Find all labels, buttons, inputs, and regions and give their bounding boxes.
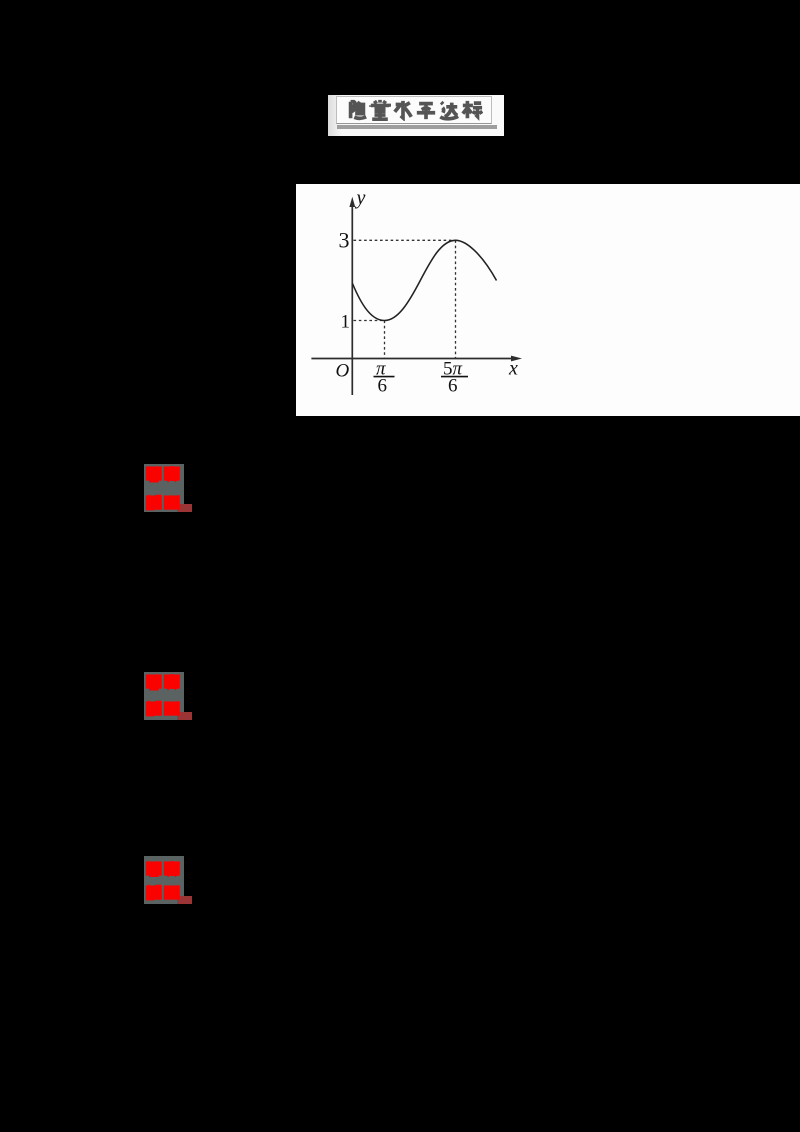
svg-text:6: 6	[378, 376, 388, 397]
svg-text:O: O	[336, 361, 350, 382]
svg-text:3: 3	[339, 228, 350, 253]
svg-text:1: 1	[341, 312, 351, 333]
svg-text:y: y	[355, 187, 366, 209]
svg-text:6: 6	[448, 376, 458, 397]
svg-text:x: x	[508, 358, 518, 380]
